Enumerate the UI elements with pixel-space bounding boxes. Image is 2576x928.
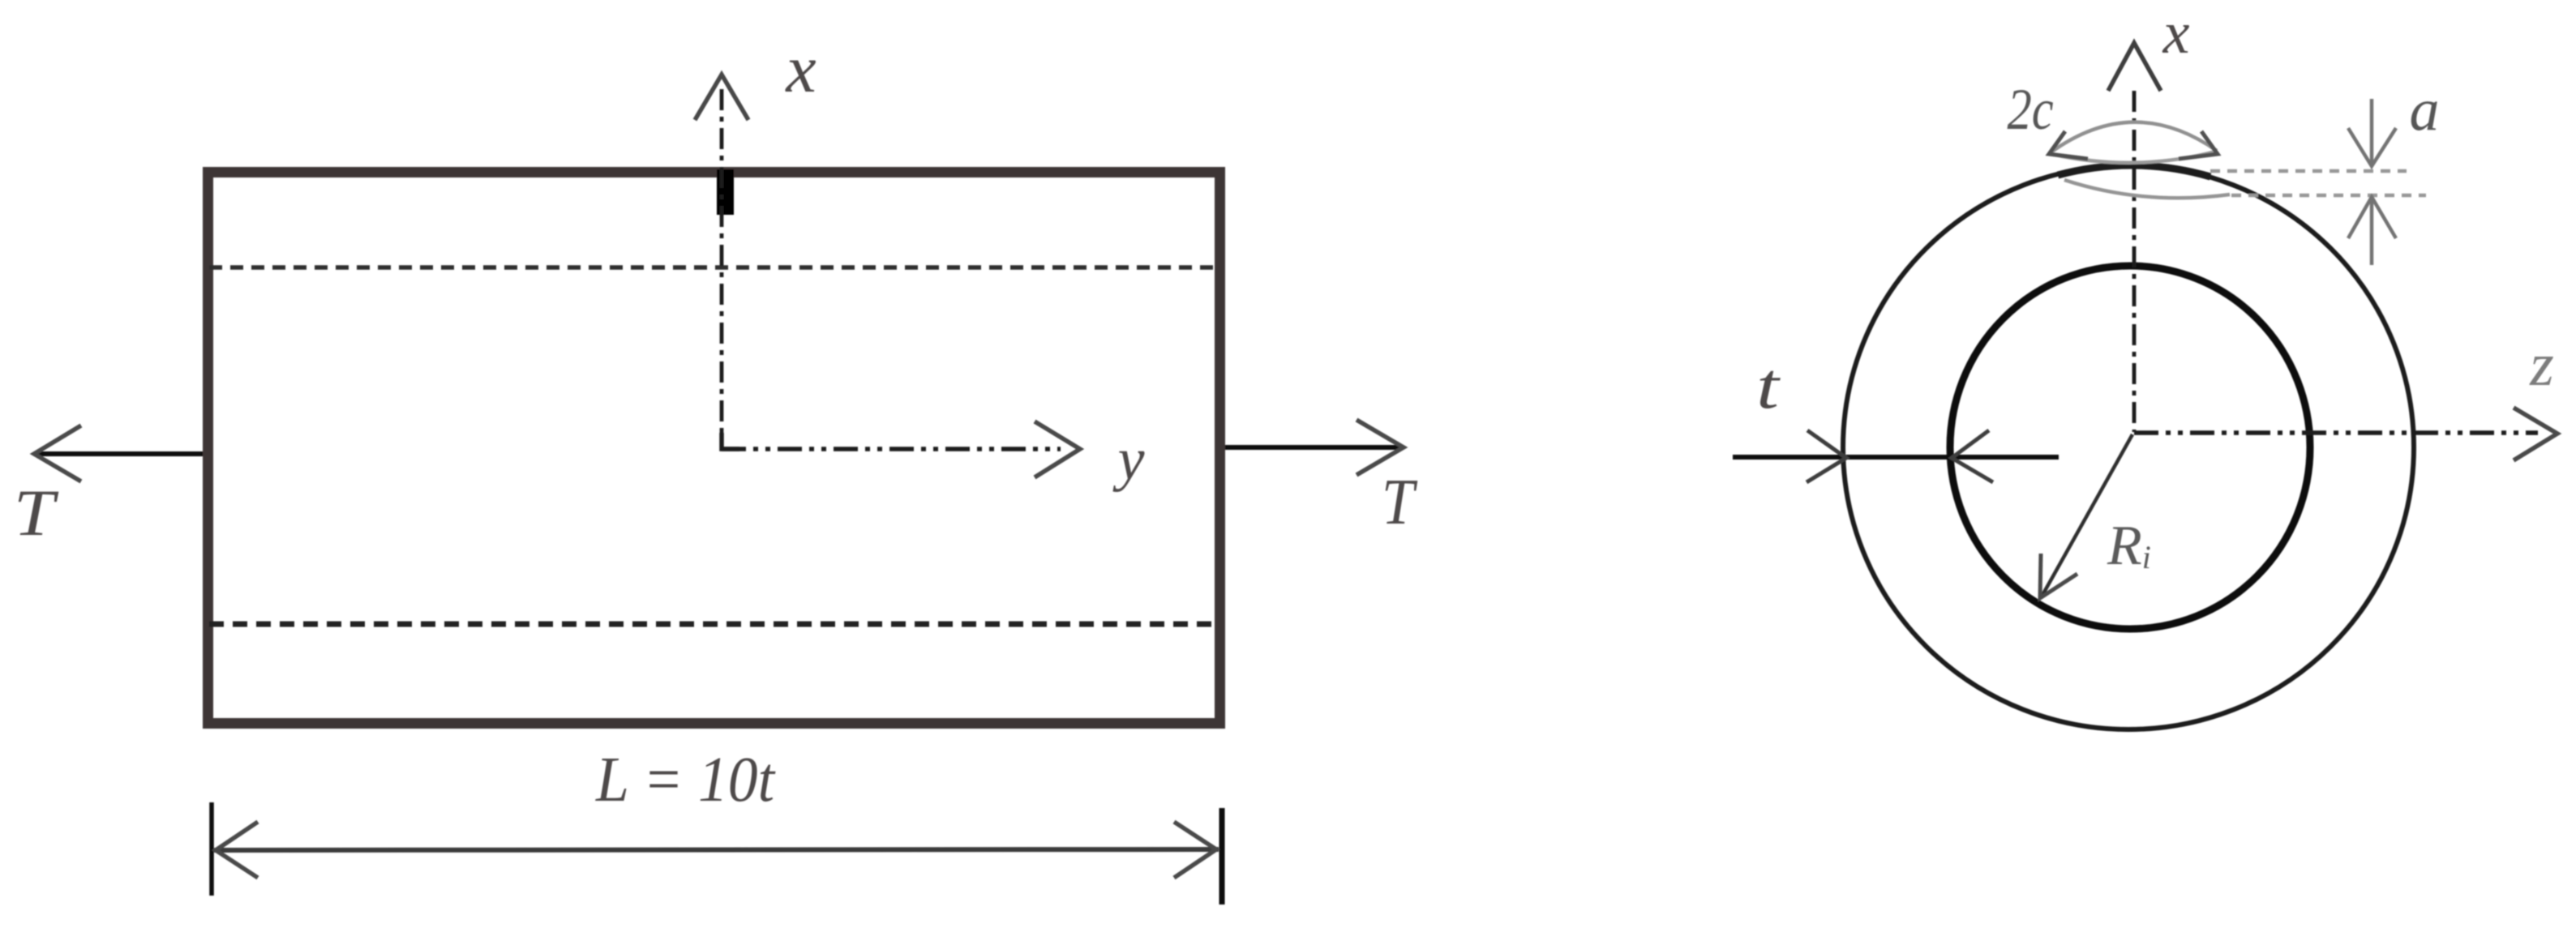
length dimension left tick bbox=[209, 802, 214, 896]
z-axis centerline (cross-section) bbox=[2134, 430, 2538, 435]
svg-text:z: z bbox=[2529, 331, 2554, 399]
tension arrow T left bbox=[36, 451, 203, 456]
2c dimension arc (lower) bbox=[2051, 152, 2215, 163]
pipe side-view outline bbox=[208, 173, 1220, 724]
wall thickness t dimension line bbox=[1733, 455, 2059, 460]
svg-text:t: t bbox=[1756, 349, 1781, 421]
svg-text:2c: 2c bbox=[2007, 78, 2053, 142]
lower inner-wall dashed line bbox=[209, 622, 1216, 627]
z-axis arrowhead bbox=[2514, 408, 2557, 460]
2c arrowhead right bbox=[2179, 131, 2218, 159]
2c arrowhead left bbox=[2049, 131, 2088, 159]
inner circle (bore) bbox=[1950, 266, 2310, 629]
dimension arrowhead left bbox=[216, 822, 258, 878]
x-axis arrowhead (side view) bbox=[695, 75, 748, 120]
svg-text:a: a bbox=[2410, 77, 2440, 143]
surface crack mouth (thick arc along outer circle) bbox=[2058, 165, 2210, 177]
y-axis arrowhead (side view) bbox=[1035, 421, 1080, 477]
inner radius Ri line bbox=[2042, 434, 2132, 597]
tension arrow T right bbox=[1225, 445, 1399, 450]
svg-text:x: x bbox=[784, 32, 816, 107]
t arrowhead at outer wall (pointing right) bbox=[1807, 430, 1846, 482]
length dimension line bbox=[214, 849, 1219, 850]
x-axis centerline (cross-section) bbox=[2132, 91, 2137, 432]
Ri arrowhead bbox=[2040, 554, 2077, 598]
y-axis centerline (side view) bbox=[722, 447, 1061, 451]
svg-text:T: T bbox=[14, 476, 60, 550]
upper inner-wall dashed line bbox=[209, 265, 1216, 270]
crack mark on pipe wall bbox=[717, 169, 734, 215]
svg-text:T: T bbox=[1382, 467, 1417, 538]
dimension arrowhead right bbox=[1174, 822, 1216, 878]
surface crack lower lens arc bbox=[2064, 180, 2230, 198]
2c dimension arc (upper) bbox=[2050, 122, 2217, 153]
a dimension lower arrow (pointing up) bbox=[2370, 199, 2374, 265]
svg-text:L = 10t: L = 10t bbox=[595, 743, 776, 815]
length dimension right tick bbox=[1219, 808, 1225, 904]
t arrowhead at inner wall (pointing left) bbox=[1952, 430, 1993, 482]
a dimension upper arrow (pointing down) bbox=[2370, 99, 2374, 165]
x-axis centerline (side view) bbox=[720, 89, 724, 449]
crack depth lower extension dashed line bbox=[2231, 194, 2426, 198]
svg-text:x: x bbox=[2162, 0, 2190, 66]
x-axis arrowhead (cross-section) bbox=[2108, 43, 2161, 91]
crack depth upper extension dashed line bbox=[2210, 169, 2407, 173]
axis elbow corner bbox=[722, 433, 739, 449]
outer circle (pipe cross-section) bbox=[1843, 165, 2414, 729]
